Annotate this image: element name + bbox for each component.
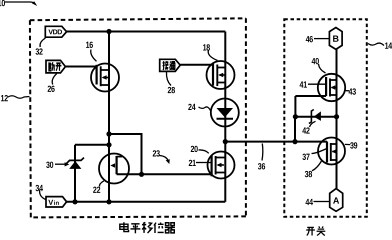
svg-text:18: 18 xyxy=(203,43,211,53)
svg-text:30: 30 xyxy=(46,160,54,170)
svg-text:42: 42 xyxy=(302,126,310,136)
svg-text:22: 22 xyxy=(93,185,101,195)
svg-text:V: V xyxy=(48,198,53,207)
svg-text:39: 39 xyxy=(350,140,358,150)
svg-text:34: 34 xyxy=(35,183,43,193)
svg-text:14: 14 xyxy=(385,41,392,51)
svg-text:32: 32 xyxy=(35,47,43,57)
svg-text:B: B xyxy=(333,34,340,44)
svg-text:41: 41 xyxy=(300,80,308,90)
svg-text:37: 37 xyxy=(302,152,310,162)
svg-text:16: 16 xyxy=(86,40,94,50)
svg-text:43: 43 xyxy=(349,87,357,97)
svg-text:46: 46 xyxy=(306,34,314,44)
svg-text:38: 38 xyxy=(305,169,313,179)
svg-text:36: 36 xyxy=(258,161,266,171)
svg-text:26: 26 xyxy=(47,84,55,94)
svg-text:12: 12 xyxy=(1,93,9,103)
svg-text:40: 40 xyxy=(312,56,320,66)
svg-text:28: 28 xyxy=(168,85,176,95)
svg-text:in: in xyxy=(54,201,60,207)
svg-text:23: 23 xyxy=(152,148,160,158)
svg-text:24: 24 xyxy=(188,102,196,112)
svg-text:20: 20 xyxy=(190,144,198,154)
svg-text:A: A xyxy=(333,196,340,206)
svg-text:VDD: VDD xyxy=(48,29,62,36)
svg-text:10: 10 xyxy=(0,0,5,8)
svg-text:21: 21 xyxy=(188,158,196,168)
svg-text:44: 44 xyxy=(305,197,313,207)
